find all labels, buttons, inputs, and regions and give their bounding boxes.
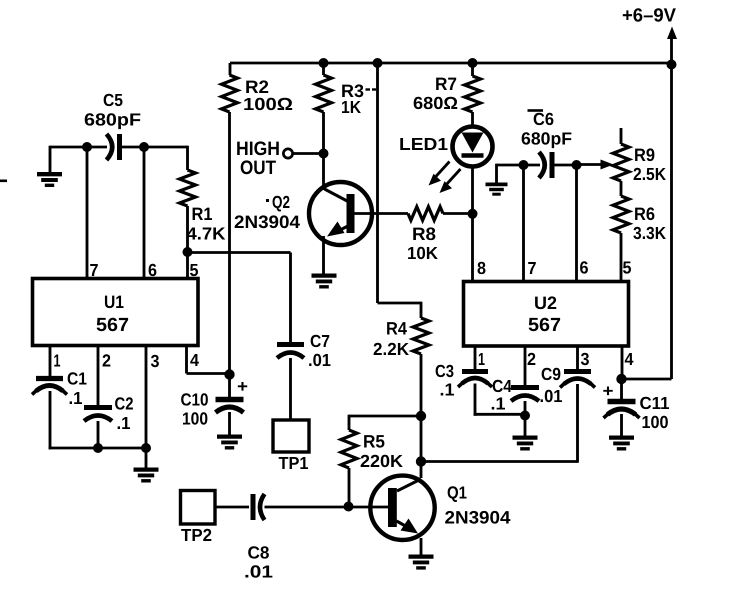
svg-text:LED1: LED1: [399, 134, 448, 154]
svg-text:6: 6: [580, 258, 589, 278]
svg-text:.01: .01: [308, 350, 331, 370]
IC U1 567: [33, 279, 199, 346]
wire R5 top lead: [348, 415, 351, 430]
svg-text:220K: 220K: [360, 451, 403, 471]
svg-text:Q2: Q2: [272, 192, 290, 212]
node junction C6 left / U2 pin7: [519, 160, 529, 170]
resistor R7 680ohm: [413, 74, 481, 113]
wire R7 top lead: [471, 63, 474, 76]
capacitor C9 .01: [540, 364, 596, 406]
svg-text:8: 8: [477, 258, 486, 278]
svg-text:TP1: TP1: [279, 453, 309, 473]
svg-text:2: 2: [527, 349, 536, 369]
ground C5 left: [49, 146, 52, 174]
wire R1 bottom to U1 pin5: [186, 206, 189, 278]
wire C7 top lead vertical: [289, 253, 292, 343]
svg-text:.1: .1: [491, 394, 506, 414]
ground C11: [609, 435, 634, 439]
node junction HIGH OUT / collector: [319, 149, 329, 159]
wire U1 pin1 lead: [49, 345, 52, 378]
svg-text:2: 2: [102, 351, 111, 371]
node junction C5 / U1 pin6: [139, 142, 149, 152]
wire C6 right lead: [552, 164, 577, 167]
svg-text:.1: .1: [117, 413, 131, 433]
wire R4 junction to C9 run junction: [420, 416, 423, 462]
LED1 light arrow 2: [440, 169, 461, 193]
capacitor C7 .01: [277, 331, 331, 370]
svg-text:1: 1: [478, 349, 485, 369]
svg-text:OUT: OUT: [240, 157, 276, 179]
capacitor C5 680pF: [84, 90, 141, 160]
wire C7 to TP1: [289, 358, 292, 420]
wire TP2 to C8: [215, 506, 249, 509]
wire R2 bottom to U1 pin4/C10 junction: [228, 112, 231, 375]
wire C2 bottom: [97, 421, 100, 448]
svg-text:R7: R7: [435, 74, 457, 94]
wire U2 pin8: [471, 214, 474, 281]
node junction C6 right / U2 pin6: [572, 160, 582, 170]
wire Q1 collector lead: [420, 462, 423, 479]
svg-text:C8: C8: [248, 543, 270, 563]
svg-text:4: 4: [190, 350, 199, 370]
svg-text:TP2: TP2: [181, 525, 212, 545]
wire right rail vertical: [670, 63, 673, 379]
node junction U1 pin5 / output wire: [183, 247, 193, 257]
node junction top rail R4 branch: [373, 58, 383, 68]
node junction pin4 / R2 / C10: [224, 369, 234, 379]
wire C8 to Q1 base: [265, 506, 389, 509]
wire LED1 cathode to R8 junction: [471, 166, 474, 214]
svg-text:3: 3: [581, 349, 590, 369]
svg-text:2N3904: 2N3904: [445, 508, 511, 528]
capacitor C4 .1: [491, 376, 540, 414]
svg-text:5: 5: [190, 260, 199, 280]
svg-text:C2: C2: [115, 394, 134, 414]
svg-text:2.2K: 2.2K: [373, 339, 409, 359]
wire R4 top lead: [420, 302, 423, 318]
transistor Q1 2N3904: [370, 476, 510, 540]
node junction top rail R3: [319, 58, 329, 68]
ground C10: [217, 434, 242, 438]
svg-text:100: 100: [182, 409, 208, 429]
svg-text:R9: R9: [634, 145, 655, 165]
wire U1 pin2 lead: [97, 345, 100, 407]
svg-text:2N3904: 2N3904: [234, 212, 300, 232]
svg-text:R1: R1: [192, 204, 213, 224]
svg-text:680pF: 680pF: [521, 129, 572, 149]
wire R2 top lead: [229, 63, 232, 75]
svg-text:C11: C11: [640, 393, 670, 413]
svg-text:.01: .01: [244, 562, 273, 582]
capacitor C10 100 electrolytic: [181, 375, 249, 429]
svg-text:R8: R8: [412, 224, 436, 244]
svg-text:567: 567: [528, 315, 561, 336]
wire R3 top lead: [322, 63, 325, 75]
svg-text:+: +: [237, 377, 248, 396]
svg-text:+6–9V: +6–9V: [622, 6, 676, 27]
resistor R4 2.2K: [373, 318, 429, 359]
wire U1 pin7 vertical: [86, 147, 89, 278]
wire C3 bottom to C4 junction: [474, 384, 477, 416]
svg-text:U1: U1: [104, 292, 124, 312]
wire top supply rail: [230, 62, 672, 65]
wire stray dash left edge: [0, 180, 7, 183]
wire C4 bottom: [524, 401, 527, 437]
node junction R8 / LED1 / U2 pin8: [468, 209, 478, 219]
capacitor C6 680pF: [521, 109, 572, 178]
svg-text:5: 5: [623, 258, 632, 278]
wire C11 to ground: [620, 414, 623, 437]
wire R4 bottom to junction: [420, 354, 423, 416]
svg-text:C6: C6: [533, 109, 554, 129]
wire U2 pin6 vertical: [575, 165, 578, 281]
svg-text:7: 7: [528, 258, 537, 278]
resistor R2: [222, 75, 294, 114]
svg-text:4.7K: 4.7K: [187, 224, 226, 244]
wire C9 bottom long run: [576, 384, 579, 463]
node junction top rail R7: [468, 58, 478, 68]
svg-text:C3: C3: [435, 361, 454, 381]
svg-text:2.5K: 2.5K: [633, 164, 666, 184]
wire R5 bottom lead: [348, 468, 351, 507]
ground C4: [513, 435, 538, 439]
svg-text:.1: .1: [69, 388, 83, 408]
svg-text:10K: 10K: [407, 243, 438, 263]
resistor R6 3.3K: [613, 196, 666, 243]
test point TP2: [181, 491, 216, 546]
capacitor C1 .1: [32, 369, 87, 409]
wire HIGH OUT to R3 branch: [293, 152, 324, 155]
wire U2 pin7 vertical: [522, 165, 525, 281]
wire R7 to LED1 anode: [471, 112, 474, 128]
capacitor C8 .01: [244, 494, 273, 582]
wire R6 to U2 pin5: [620, 233, 623, 281]
wire U1 pin6 vertical: [143, 147, 146, 278]
svg-text:C10: C10: [181, 390, 209, 410]
node junction R5 / base wire: [344, 502, 354, 512]
node junction Q1 collector / C9 run: [416, 456, 426, 466]
wire C6 left lead: [524, 164, 541, 167]
test point TP1: [273, 420, 309, 473]
node supply arrow +6-9V: [622, 6, 677, 64]
transistor Q2 2N3904: [234, 182, 372, 245]
resistor R5 220K: [341, 430, 403, 471]
resistor R1 4.7K: [180, 170, 226, 244]
wire pin5 to C7 horizontal: [188, 251, 291, 254]
resistor R3: [316, 75, 365, 117]
node junction pin3 / ground: [141, 443, 151, 453]
svg-text:U2: U2: [534, 293, 557, 313]
IC U2 567: [464, 282, 629, 347]
wire U2 pin3 lead: [576, 346, 579, 371]
svg-text:R6: R6: [634, 204, 655, 224]
wire right rail to U2 pin4 junction: [622, 378, 672, 381]
wire R5 top horizontal: [349, 415, 421, 418]
wire R9 top stub: [620, 128, 623, 144]
svg-text:+: +: [603, 382, 614, 401]
wire stray dash near R3: [366, 88, 371, 90]
wire C6 ground hook: [497, 164, 524, 167]
node junction R4 / R5: [416, 411, 426, 421]
svg-text:6: 6: [148, 260, 157, 280]
wire U1 pin4 lead: [185, 345, 188, 374]
node HIGH OUT terminal: [236, 138, 293, 179]
svg-text:7: 7: [90, 260, 99, 280]
node junction C2 bottom rail: [93, 443, 103, 453]
capacitor C11 100 electrolytic: [603, 379, 670, 432]
wire R9 to R6: [620, 181, 623, 196]
LED LED1: [399, 127, 493, 167]
svg-text:C9: C9: [541, 364, 561, 384]
wire R8 to LED junction: [443, 212, 473, 215]
potentiometer R9 2.5K: [613, 144, 666, 184]
svg-text:.1: .1: [440, 380, 455, 400]
wire ground stub U1: [145, 448, 148, 469]
svg-text:1K: 1K: [341, 97, 361, 117]
wire U2 pin4 lead: [621, 346, 624, 379]
svg-text:3: 3: [151, 351, 160, 371]
svg-text:R5: R5: [363, 432, 385, 452]
svg-text:C1: C1: [67, 369, 87, 389]
wire U2 pin2 lead: [524, 346, 527, 387]
node junction pin4 / right rail / C11: [616, 374, 626, 384]
wire Q2 emitter to ground: [322, 236, 325, 275]
svg-text:4: 4: [625, 349, 634, 369]
ground near C6: [486, 182, 508, 186]
wire Q2 base to R8: [354, 212, 408, 215]
svg-text:R4: R4: [386, 319, 407, 339]
ground Q1 emitter: [409, 554, 434, 558]
svg-text:C7: C7: [310, 331, 330, 351]
svg-text:C5: C5: [103, 90, 123, 110]
wire U1 pin3 lead: [145, 345, 148, 448]
wire R4 branch vertical from rail: [376, 63, 379, 303]
svg-text:680pF: 680pF: [84, 110, 141, 130]
node junction C3/C4 ground: [520, 411, 530, 421]
wire R3 bottom to Q2 collector: [322, 112, 325, 190]
svg-text:.01: .01: [540, 386, 563, 406]
svg-text:Q1: Q1: [447, 483, 467, 503]
node junction top rail / right rail: [667, 60, 677, 70]
ground U1 bottom: [134, 467, 159, 471]
svg-text:567: 567: [96, 315, 129, 336]
svg-text:100: 100: [642, 412, 669, 432]
resistor R8 10K: [407, 207, 443, 263]
svg-text:680Ω: 680Ω: [413, 93, 458, 113]
wire R9 wiper arrow: [577, 160, 614, 170]
LED1 light arrow 1: [429, 162, 450, 186]
ground Q2 emitter: [312, 273, 337, 277]
capacitor C2 .1: [84, 394, 134, 434]
svg-text:1: 1: [54, 351, 61, 371]
capacitor C3 .1: [435, 361, 492, 400]
wire Q1 emitter to ground: [420, 538, 423, 556]
wire C1 bottom to bottom rail: [49, 391, 52, 449]
node junction C5 / U1 pin7: [82, 142, 92, 152]
wire R1 top lead: [186, 146, 189, 170]
wire R4 branch jog right: [378, 302, 422, 305]
wire U2 pin1 lead: [474, 346, 477, 371]
node stray dot near Q2 label: [266, 199, 269, 202]
svg-text:3.3K: 3.3K: [633, 223, 666, 243]
wire C10 to ground: [228, 412, 231, 436]
svg-text:100Ω: 100Ω: [243, 94, 293, 114]
wire C5 net horizontal: [50, 146, 107, 149]
